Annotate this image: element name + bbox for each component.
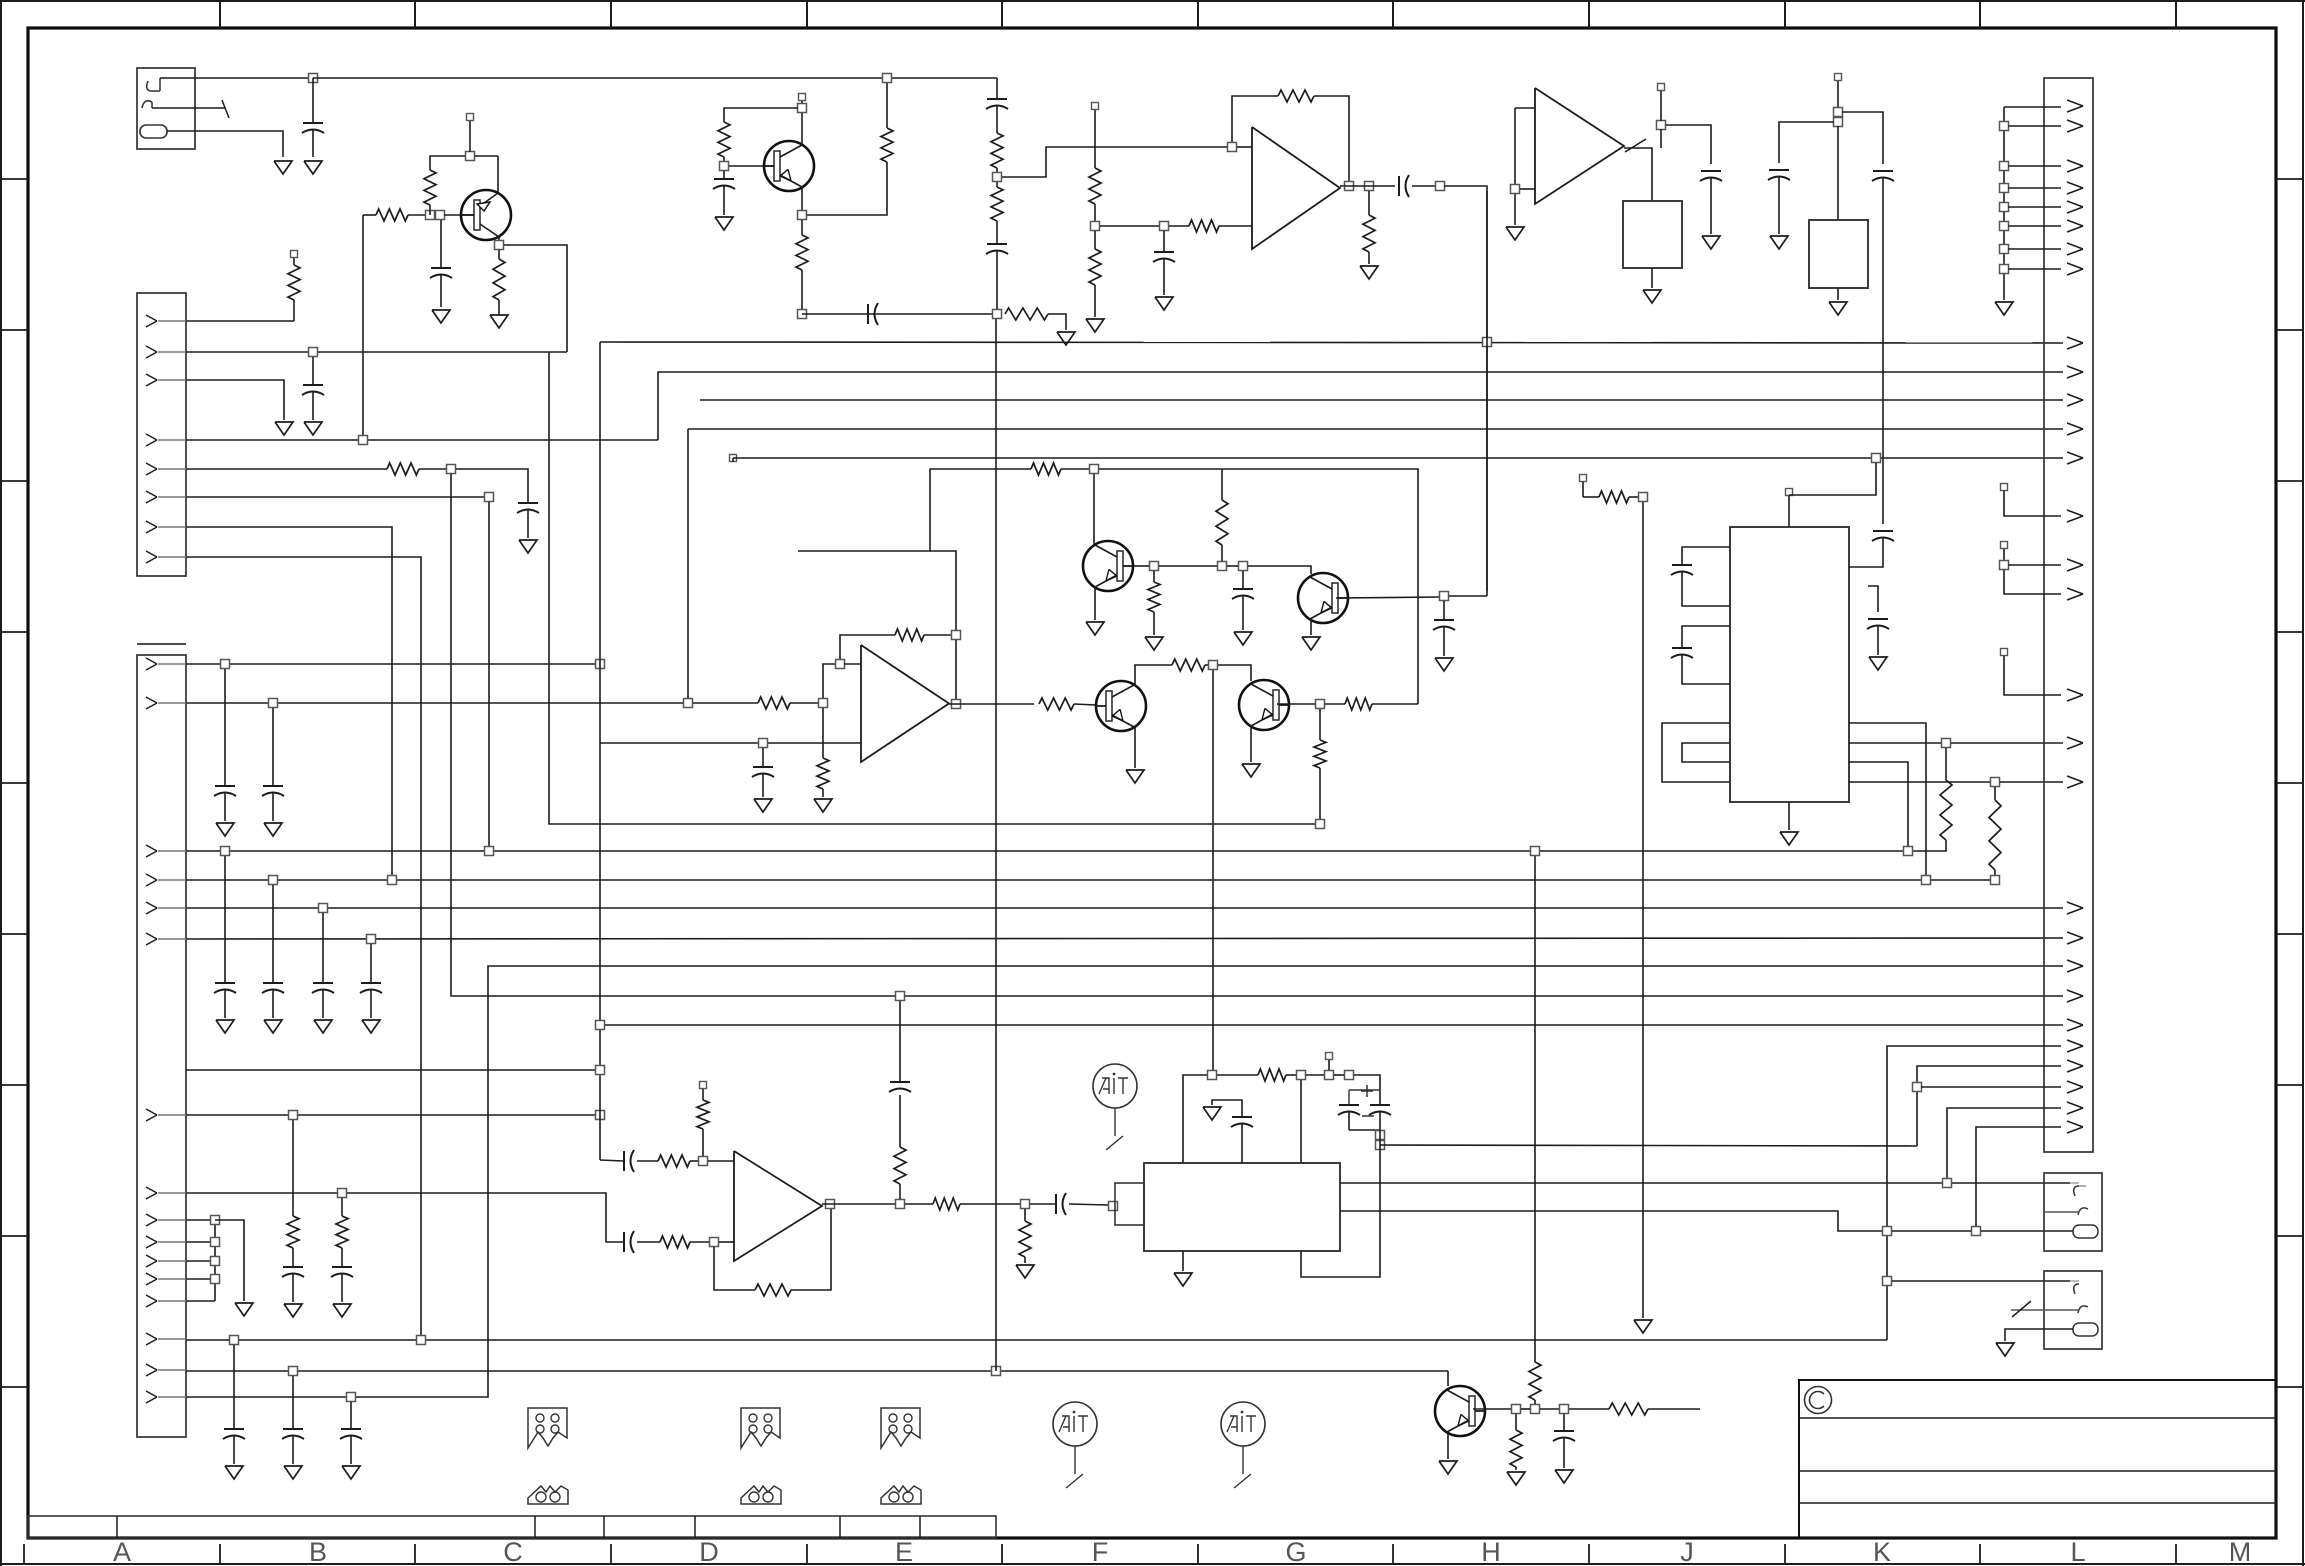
corner x600 to +in (600, 1160, 624, 1161)
bus y1340 pin1339 (186, 1339, 1887, 1341)
wire jack sleeve to ground (167, 131, 283, 157)
wire y469 to x1418 (1099, 469, 1418, 704)
connector CN2 (137, 643, 186, 645)
resistor R26 (1039, 698, 1074, 710)
ground C5 (216, 823, 234, 836)
node -in (710, 1238, 719, 1247)
grounded pin y249 (2000, 245, 2009, 254)
node opamp1 +in (1228, 143, 1237, 152)
ground Q5 emitter (1134, 727, 1136, 768)
pin CN1 y527 (146, 521, 157, 527)
ground pin380 (275, 422, 293, 435)
bus y1070 (186, 1069, 600, 1071)
IC U6 body (1730, 527, 1849, 802)
node U3 out (952, 700, 961, 709)
collector riser Q2b (1093, 474, 1095, 545)
L stub y516 (2001, 484, 2008, 491)
node Q2b collector feed (1090, 465, 1099, 474)
stub node divider x1095 (1092, 103, 1099, 110)
wire R11 to Q2a collector node (807, 162, 887, 215)
capacitor C33 (1701, 170, 1721, 172)
capacitor C17 series (867, 304, 869, 324)
U6 right pin y762 (1849, 762, 1908, 846)
wire J3 sleeve to ground (2005, 1329, 2073, 1341)
ground IC U5 (1182, 1251, 1184, 1271)
wire y1127 from jackB sleeve (1976, 1127, 2061, 1231)
resistor R5 (288, 265, 300, 300)
capacitor C24 (762, 748, 764, 767)
ground Q6 emitter (1250, 727, 1252, 762)
node electrolytic bottom (1376, 1131, 1385, 1140)
grounded pin y166 (2000, 162, 2009, 171)
resistor R25 feedback (895, 629, 924, 641)
capacitor C15 (350, 1402, 352, 1429)
U-link inner pins U6 (1682, 743, 1730, 762)
stub node R31 top (700, 1082, 707, 1089)
stub node +V Q1 (469, 121, 471, 152)
assembly icon D top (741, 1408, 780, 1448)
divider chain x1095 (1094, 110, 1096, 168)
node out tap (1657, 121, 1666, 130)
node Q1 base 2 (436, 211, 445, 220)
pin CN1 y352 (146, 346, 157, 352)
capacitor C37 (1563, 1414, 1565, 1431)
resistor R28 (1325, 703, 1345, 705)
node supply rail (1325, 1071, 1334, 1080)
ground C34 (1770, 236, 1788, 249)
assembly icon E top (881, 1408, 920, 1448)
stub node R5 top (291, 251, 298, 258)
capacitor C16 (723, 171, 725, 179)
wire to C4 (456, 469, 528, 503)
ground C14 (284, 1466, 302, 1479)
node R43 (1639, 493, 1648, 502)
node Q1 base 1 (426, 211, 435, 220)
K area arrows (2067, 1040, 2083, 1046)
feedback loop U1 (1232, 96, 1278, 142)
resistor R16 (996, 182, 998, 187)
capacitor C25 series (623, 1151, 625, 1171)
resistor R37 (1217, 1074, 1258, 1076)
node R7/R8 (819, 699, 828, 708)
pin CN1 y380 (146, 374, 157, 380)
node bus824/Q5 (1316, 820, 1325, 829)
node x997 bus314 (993, 310, 1002, 319)
ground C4 (519, 540, 537, 553)
node U2 -in (1511, 185, 1520, 194)
wire jack ring out with switch (152, 107, 225, 109)
ground C9 (314, 1020, 332, 1033)
node R15/R16 (993, 173, 1002, 182)
ground C16 (715, 217, 733, 230)
wire y1046 from bus1340 (1887, 1046, 2061, 1340)
wire y1108 from jackB (1947, 1108, 2061, 1183)
resistor R32 (660, 1236, 690, 1248)
assembly icon E bottom (881, 1486, 921, 1504)
resistor R17 feedback (1278, 90, 1314, 102)
ground R23 (1145, 637, 1163, 650)
wire pin321 to R5 (186, 320, 294, 322)
wire pin1397 corner up (186, 966, 2063, 1397)
node Q7 base 2 (1531, 1405, 1540, 1414)
U8 right pin y586 to C38 (1868, 586, 1878, 612)
bus y400 (700, 399, 2063, 401)
node Q3 base rail 1 (1150, 562, 1159, 571)
node Q2a collector (798, 104, 807, 113)
bus y908 pin908 (186, 907, 2063, 909)
capacitor C28 series (1030, 1203, 1056, 1205)
TAIT logo 1 (1093, 1064, 1137, 1108)
node opamp3 +in (836, 660, 845, 669)
resistor R13 (801, 220, 803, 235)
node R37/IC4 (1297, 1071, 1306, 1080)
wire y1145 to right (1380, 1145, 1917, 1146)
op-amp U1 (1252, 127, 1340, 249)
resistor R18 (1089, 168, 1101, 204)
collector Q5 riser (1135, 665, 1172, 686)
node wire1145 (1376, 1141, 1385, 1150)
ground C38 (1869, 657, 1887, 670)
wire Q1 bias top (430, 156, 498, 170)
wire to Q4 collector (1248, 566, 1311, 574)
ground Q7 emitter (1447, 1433, 1449, 1459)
stub node above tap (1658, 84, 1665, 91)
pin CN2 y939 (146, 933, 157, 939)
slash on U2 output (1625, 139, 1646, 152)
resistor R41 above (1534, 1400, 1536, 1404)
ground U7 (1651, 268, 1653, 288)
capacitor C29 on IC4 top (1241, 1124, 1243, 1163)
node Q6 base (1316, 700, 1325, 709)
node bus880/pin527 (388, 876, 397, 885)
ground jack sleeve (274, 161, 292, 174)
assembly icon D bottom (741, 1486, 781, 1504)
wire left branch to C34 (1779, 122, 1834, 163)
wire tap to C33 (1666, 125, 1711, 164)
ground pin group (235, 1303, 253, 1316)
grounded pin y226 (2000, 222, 2009, 231)
bus y314 (802, 313, 997, 315)
svg-text:F: F (1092, 1537, 1109, 1566)
switch slash J3 (2012, 1301, 2031, 1317)
node C10 (367, 935, 376, 944)
node Q2a emitter (798, 211, 807, 220)
node R36 top (1021, 1200, 1030, 1209)
resistor R23 (1153, 571, 1155, 582)
pin CN2 y1279 (146, 1273, 157, 1279)
resistor R38 (1945, 748, 1947, 780)
ground CN3 group (1995, 302, 2013, 315)
resistor R34 above (899, 1184, 901, 1199)
node fb right (952, 631, 961, 640)
capacitor C34 (1769, 169, 1789, 171)
revision strip bottom left (28, 1516, 996, 1538)
vertical rail x600 / bus y342 (599, 342, 601, 1160)
capacitor C23 (1443, 601, 1445, 620)
svg-text:A: A (113, 1537, 131, 1566)
stub above supply (1326, 1053, 1333, 1060)
connector CN3 right (2044, 78, 2093, 1152)
ground R4 (490, 315, 508, 328)
right margin ticks (2276, 178, 2303, 180)
resistor R21 (1368, 191, 1370, 215)
feedback U3 (840, 635, 895, 659)
capacitor C27 (899, 1095, 901, 1147)
pin CN2 y703 (146, 697, 157, 703)
capacitor C31 (1672, 564, 1692, 566)
vertical rail x996 (995, 319, 997, 1371)
capacitor C13 (233, 1345, 235, 1429)
ground C29 loop (1203, 1107, 1221, 1120)
ground C2 (432, 310, 450, 323)
node Q1 top rail (466, 152, 475, 161)
grounded pin y207 (2000, 203, 2009, 212)
grounded pin y126 (2000, 122, 2009, 131)
svg-text:K: K (1873, 1537, 1891, 1566)
pin CN2 y908 (146, 902, 157, 908)
wire pin527 corner (186, 527, 392, 880)
op-amp U2 buffer (1535, 88, 1624, 204)
ground U2 rail (1506, 227, 1524, 240)
cap loop L1 on U6 (1682, 547, 1730, 565)
svg-text:G: G (1285, 1537, 1306, 1566)
node bus1371/vert996 (992, 1367, 1001, 1376)
capacitor C11 (292, 1248, 294, 1267)
ground U8 (1837, 288, 1839, 300)
node Q3 base rail 2 (1218, 562, 1227, 571)
corner +9V to C18 (996, 78, 998, 99)
node Q2a base (720, 162, 729, 171)
capacitor C26 series -in (623, 1232, 625, 1252)
resistor R7 opamp3 input (758, 697, 790, 709)
wire to opamp1 +in (1002, 147, 1227, 177)
resistor R39 (1994, 787, 1996, 800)
top margin ticks (219, 1, 221, 28)
U-link outer pins U6 (1662, 723, 1730, 782)
capacitor C18 (987, 98, 1007, 100)
assembly icon C top (528, 1408, 567, 1448)
node C14 (289, 1367, 298, 1376)
ground C24 (754, 799, 772, 812)
L stub y565 (2001, 542, 2008, 549)
transistor Q6 (output pair B) (1239, 680, 1289, 730)
wire Q4 base (1336, 597, 1439, 598)
ground R21 (1360, 266, 1378, 279)
wire to electrolytics (1354, 1075, 1380, 1105)
vertical x1213 (1212, 670, 1214, 1075)
svg-text:C: C (503, 1537, 523, 1566)
node arrow1087 (1913, 1083, 1922, 1092)
ground R10C12 (333, 1304, 351, 1317)
title block (1799, 1380, 2276, 1538)
node bus782 (1991, 778, 2000, 787)
node C15 (347, 1393, 356, 1402)
ground x1643 (1634, 1320, 1652, 1333)
resistor R20 (1169, 225, 1189, 227)
transistor Q3 (driver) (1083, 541, 1133, 591)
bus y1025 (600, 1024, 2063, 1026)
wire pin1193 (186, 1193, 624, 1242)
capacitor C12 (341, 1248, 343, 1267)
bus y824 (549, 352, 1320, 824)
capacitor C38 (1868, 618, 1888, 620)
bus y1371 pin1370 (186, 1370, 1448, 1372)
ground Q3 emitter (1094, 587, 1096, 620)
ground R9C11 (284, 1304, 302, 1317)
ground C23 (1435, 658, 1453, 671)
node C6 (269, 699, 278, 708)
resistor R31 (702, 1089, 704, 1100)
bus y743 right (1951, 742, 2063, 744)
resistor R29 Q6 bias (1319, 709, 1321, 740)
node C9 (319, 904, 328, 913)
transistor Q5 (output pair A) (1096, 681, 1146, 731)
node U1 output (1345, 182, 1354, 191)
wire vertical from R2 to pin (362, 215, 364, 440)
bottom letter strip (23, 1544, 25, 1564)
node x1535 bus851 (1531, 847, 1540, 856)
pin CN2 y1339 (146, 1333, 157, 1339)
node C23 (1440, 592, 1449, 601)
capacitor C19 (996, 221, 998, 244)
U6 right pin y782 to bus (1849, 781, 1990, 783)
pin CN2 y1301 (146, 1295, 157, 1301)
resistor R40 (1515, 1414, 1517, 1430)
node Q7 base 1 (1512, 1405, 1521, 1414)
node out rail (896, 1200, 905, 1209)
wire Q2a collector loop (724, 108, 798, 122)
wire top pin right (1789, 463, 1876, 495)
U6 right pin y723 (1849, 723, 1926, 875)
node after C21 (1436, 182, 1445, 191)
capacitor C1 (312, 78, 314, 123)
transistor Q1 (497, 156, 499, 193)
node C8 (269, 876, 278, 885)
resistor R15 (991, 133, 1003, 168)
node sleeve wire (1972, 1227, 1981, 1236)
ground C1 (304, 161, 322, 174)
resistor R19 (1094, 231, 1096, 249)
node Q7 base 3 (1560, 1405, 1569, 1414)
capacitor C10 (370, 944, 372, 983)
pin CN1 y440 (146, 434, 157, 440)
ground C8 (264, 1020, 282, 1033)
node A1 on +9V wire (309, 74, 318, 83)
node IC4 in (1109, 1202, 1118, 1211)
IC U7 body (1623, 201, 1682, 268)
wire pin380 to ground (186, 380, 284, 420)
cap loop L2 on U6 (1682, 626, 1730, 648)
resistor R43 (1583, 496, 1599, 498)
ground C37 (1555, 1470, 1573, 1483)
IC U5 body (1144, 1163, 1340, 1251)
bus y458 from stub (730, 455, 737, 462)
node U4 out (826, 1200, 835, 1209)
node bus851/pin497 (485, 847, 494, 856)
node pin703/vert688 (684, 699, 693, 708)
wire Q1 collector to y352 (504, 245, 567, 352)
capacitor C8 (272, 885, 274, 983)
node bus1070/vert600 (596, 1066, 605, 1075)
wire jack tip out (160, 77, 313, 79)
node bus342/vert1487 (1483, 338, 1492, 347)
ground R36 (1016, 1265, 1034, 1278)
ground IC U6 (1788, 802, 1790, 830)
jack connector J2 (2044, 1173, 2102, 1251)
vertical x1535 to bus851 (1534, 851, 1536, 1362)
wire +9V top rail (313, 77, 997, 79)
node U1 output 2 (1365, 182, 1374, 191)
ground C6 (264, 823, 282, 836)
vertical from node R6 down to bus996 (451, 474, 2063, 996)
feedback U4 (714, 1247, 755, 1290)
ground Q4 emitter (1310, 620, 1312, 635)
grounded pin y269 (2000, 265, 2009, 274)
connector CN1 (137, 293, 186, 576)
stub node Q2a collector top (799, 94, 806, 101)
wire pin352 rail (186, 351, 567, 353)
transistor Q7 (1447, 1371, 1449, 1386)
resistor R4 Q1 emitter load (498, 250, 500, 259)
pin CN2 y880 (146, 874, 157, 880)
capacitor C36 (1873, 530, 1893, 532)
switch contact slash (222, 100, 229, 118)
ground R40 (1507, 1472, 1525, 1485)
svg-text:E: E (895, 1537, 913, 1566)
node bus743 (1942, 739, 1951, 748)
node bus880/R39 (1991, 876, 2000, 885)
ground C13 (225, 1466, 243, 1479)
plus mark (1361, 1090, 1373, 1092)
svg-text:H: H (1481, 1537, 1501, 1566)
node R27/vert1213 (1209, 661, 1218, 670)
svg-text:L: L (2070, 1537, 2085, 1566)
node C5 (221, 660, 230, 669)
vertical rail x1487 mid (1486, 191, 1488, 338)
wire pin703 (186, 702, 758, 704)
ground C15 (342, 1466, 360, 1479)
resistor R27 inter-collector (1172, 659, 1205, 671)
grounded pin group CN2 (186, 1219, 215, 1221)
IC4 right pin y1183 (1340, 1182, 2070, 1184)
resistor R6 (387, 463, 419, 475)
bus y429 from corner688 (688, 428, 2063, 430)
IC U8 body (1809, 220, 1868, 288)
corner pin440 up to bus372 (658, 372, 2063, 440)
vertical to C36 (1882, 178, 1884, 524)
node +in (699, 1157, 708, 1166)
wire -in (1100, 225, 1159, 227)
resistor R11 (886, 83, 888, 128)
node bus851 end (1904, 847, 1913, 856)
transistor Q4 (driver 2) (1298, 573, 1348, 623)
wire pin469 (186, 468, 387, 470)
ground R19 (1086, 319, 1104, 332)
ground J3 (1996, 1343, 2014, 1356)
L stub y695 (2001, 649, 2008, 656)
resistor R8 to ground (822, 708, 824, 758)
wire to opamp3 +in (823, 664, 836, 698)
capacitor C14 (292, 1376, 294, 1429)
op-amp U4 (734, 1151, 822, 1261)
resistor R36 (1024, 1209, 1026, 1221)
capacitor C7 (224, 856, 226, 983)
ground R14 (1057, 332, 1075, 345)
capacitor C3 (312, 357, 314, 385)
wire pin440 bus (186, 439, 658, 441)
node Q1 collector (498, 237, 500, 241)
node Q3 base rail 3 (1239, 562, 1248, 571)
